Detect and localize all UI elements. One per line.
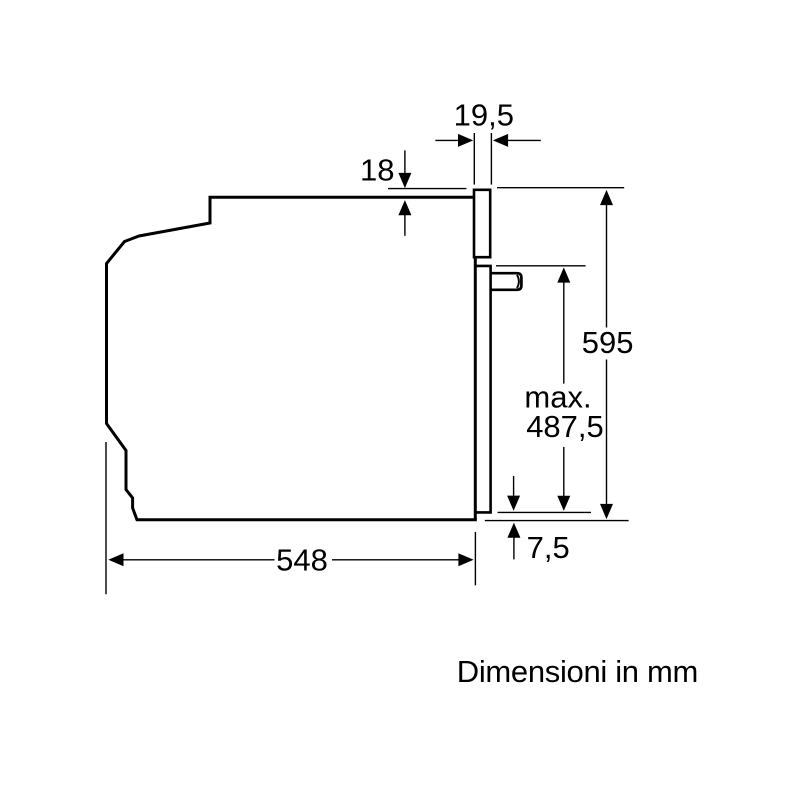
dim 548 left arrow	[108, 553, 123, 566]
dim 595 top extension line	[497, 187, 624, 189]
dim 7,5 door bottom extension line	[498, 511, 591, 513]
dim 18 extension line	[388, 188, 466, 190]
door handle	[490, 273, 521, 290]
dim 595 line lower	[606, 360, 608, 505]
dim 548 right extension line	[474, 532, 476, 585]
door front edge with notch and bottom	[475, 266, 490, 513]
dim 19,5 right arrow	[508, 139, 541, 141]
handle end cap arc	[517, 275, 519, 288]
dim 19,5 left arrow	[435, 139, 459, 141]
dim 19,5 extension line right	[490, 133, 492, 185]
dim 7,5 down arrow	[513, 476, 515, 497]
svg-text:19,5: 19,5	[454, 98, 514, 133]
oven front wall	[474, 197, 477, 520]
dim max 487,5 top extension line	[496, 265, 586, 267]
svg-text:7,5: 7,5	[527, 530, 570, 565]
dim 595 bottom extension line	[485, 520, 629, 522]
dim max 487,5 line lower	[563, 447, 565, 496]
svg-text:Dimensioni in mm: Dimensioni in mm	[457, 654, 698, 689]
dim max 487,5 line upper	[557, 267, 570, 282]
oven body outline	[107, 197, 477, 520]
dim 18 up arrow	[398, 200, 411, 215]
dim 7,5 up arrow	[507, 523, 520, 538]
svg-text:18: 18	[360, 153, 394, 188]
dim 18 down arrow	[404, 150, 406, 173]
dim 548 right arrow	[332, 559, 459, 561]
svg-text:487,5: 487,5	[526, 409, 604, 444]
dim 595 line upper	[600, 190, 613, 205]
door top panel	[474, 190, 490, 257]
svg-text:548: 548	[276, 543, 328, 578]
dim 19,5 extension line left	[473, 133, 475, 185]
dim 548 left extension line	[105, 442, 107, 594]
svg-text:595: 595	[582, 325, 634, 360]
